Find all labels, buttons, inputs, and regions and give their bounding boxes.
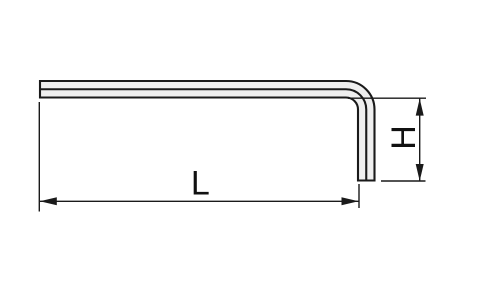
svg-text:H: H [385,125,423,150]
svg-text:L: L [191,164,210,202]
